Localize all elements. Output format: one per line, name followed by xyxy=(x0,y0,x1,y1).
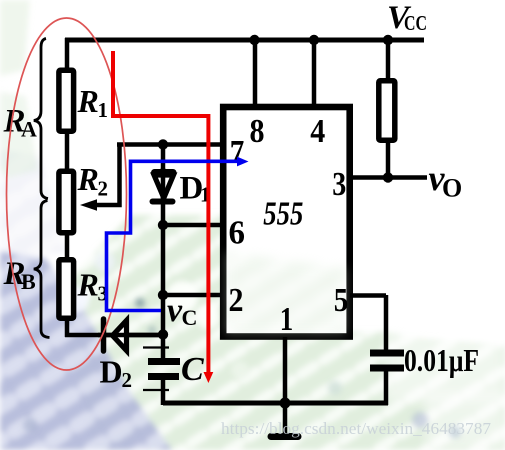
R2 wiper arrow xyxy=(94,146,120,205)
junction dot pin6 node xyxy=(158,220,168,230)
svg-text:D: D xyxy=(100,354,123,390)
node column vC xyxy=(161,144,166,359)
junction dot output xyxy=(383,172,393,182)
svg-text:CC: CC xyxy=(404,11,427,35)
label R2 xyxy=(77,161,109,201)
wire R1 to R2 xyxy=(65,132,70,173)
diode D2 xyxy=(113,321,127,351)
wire pin3 output xyxy=(350,175,427,180)
junction dot pin2 node xyxy=(158,290,168,300)
red current path arrow xyxy=(113,51,208,373)
brace RA xyxy=(34,39,48,199)
svg-text:6: 6 xyxy=(229,215,246,252)
label RA xyxy=(3,104,38,142)
potentiometer R2 xyxy=(59,171,74,233)
svg-text:4: 4 xyxy=(310,113,325,150)
svg-text:1: 1 xyxy=(98,98,109,122)
capacitor C xyxy=(148,358,180,365)
label R1 xyxy=(77,83,109,122)
svg-text:0.01μF: 0.01μF xyxy=(404,342,479,378)
junction dot D1 top xyxy=(158,139,168,149)
svg-text:R: R xyxy=(77,161,99,197)
svg-text:https://blog.csdn.net/weixin_4: https://blog.csdn.net/weixin_46483787 xyxy=(221,419,491,438)
svg-text:8: 8 xyxy=(250,113,265,150)
svg-text:C: C xyxy=(181,351,204,388)
resistor pull-up (unlabeled) xyxy=(379,81,395,141)
svg-text:2: 2 xyxy=(98,177,109,201)
brace RB xyxy=(34,201,50,338)
resistor R3 xyxy=(59,260,74,319)
junction dot ground xyxy=(280,398,291,409)
svg-text:1: 1 xyxy=(280,301,294,338)
wire R3 to D2 xyxy=(65,317,163,337)
svg-text:555: 555 xyxy=(263,196,303,233)
junction dot pull resistor rail xyxy=(383,35,393,45)
junction dot vC node xyxy=(158,329,168,339)
wire pin1 xyxy=(283,337,288,403)
svg-text:5: 5 xyxy=(334,282,349,319)
capacitor C minus mark xyxy=(143,389,169,391)
resistor R1 xyxy=(59,70,74,131)
label VCC xyxy=(387,0,427,36)
svg-text:B: B xyxy=(21,269,36,294)
wire C to ground rail xyxy=(161,378,166,405)
svg-text:2: 2 xyxy=(122,368,133,392)
wire VCC rail xyxy=(65,38,424,43)
svg-text:A: A xyxy=(21,117,37,142)
svg-text:O: O xyxy=(442,174,462,203)
label vO xyxy=(429,158,463,203)
wire pin5 xyxy=(350,295,386,352)
label RB xyxy=(3,256,37,294)
junction dot pin8 rail xyxy=(249,35,259,45)
svg-text:2: 2 xyxy=(229,282,244,319)
wire pin4 xyxy=(312,40,317,104)
junction dot pin4 rail xyxy=(309,35,319,45)
wire ground rail xyxy=(163,401,388,406)
label R3 xyxy=(77,267,109,306)
capacitor C2 0.01uF xyxy=(370,350,404,357)
diode D1 xyxy=(154,175,174,198)
wire pin6 xyxy=(163,223,222,228)
ellipse highlight around RA RB chain xyxy=(7,18,127,370)
label D2 xyxy=(100,354,133,393)
wire pin8 xyxy=(253,40,258,104)
label vC xyxy=(167,292,197,330)
ground symbol xyxy=(283,403,288,433)
wire R2 to R3 xyxy=(65,231,70,261)
wire rail to pull resistor xyxy=(386,40,391,81)
wire rail to R1 xyxy=(65,38,70,70)
svg-text:3: 3 xyxy=(332,166,346,203)
svg-text:R: R xyxy=(77,267,99,303)
wire pull resistor to pin3 xyxy=(386,141,391,178)
wire pin2 xyxy=(163,293,222,298)
wire pin7 xyxy=(117,142,222,147)
wire C2 to ground rail xyxy=(384,370,389,405)
box interior texture xyxy=(226,252,346,334)
IC U1 555 box xyxy=(223,107,350,337)
svg-text:R: R xyxy=(77,83,99,119)
svg-text:C: C xyxy=(182,305,198,330)
label D1 xyxy=(180,171,211,207)
capacitor C plus mark xyxy=(143,346,169,348)
blue feedback path arrow xyxy=(107,161,240,310)
